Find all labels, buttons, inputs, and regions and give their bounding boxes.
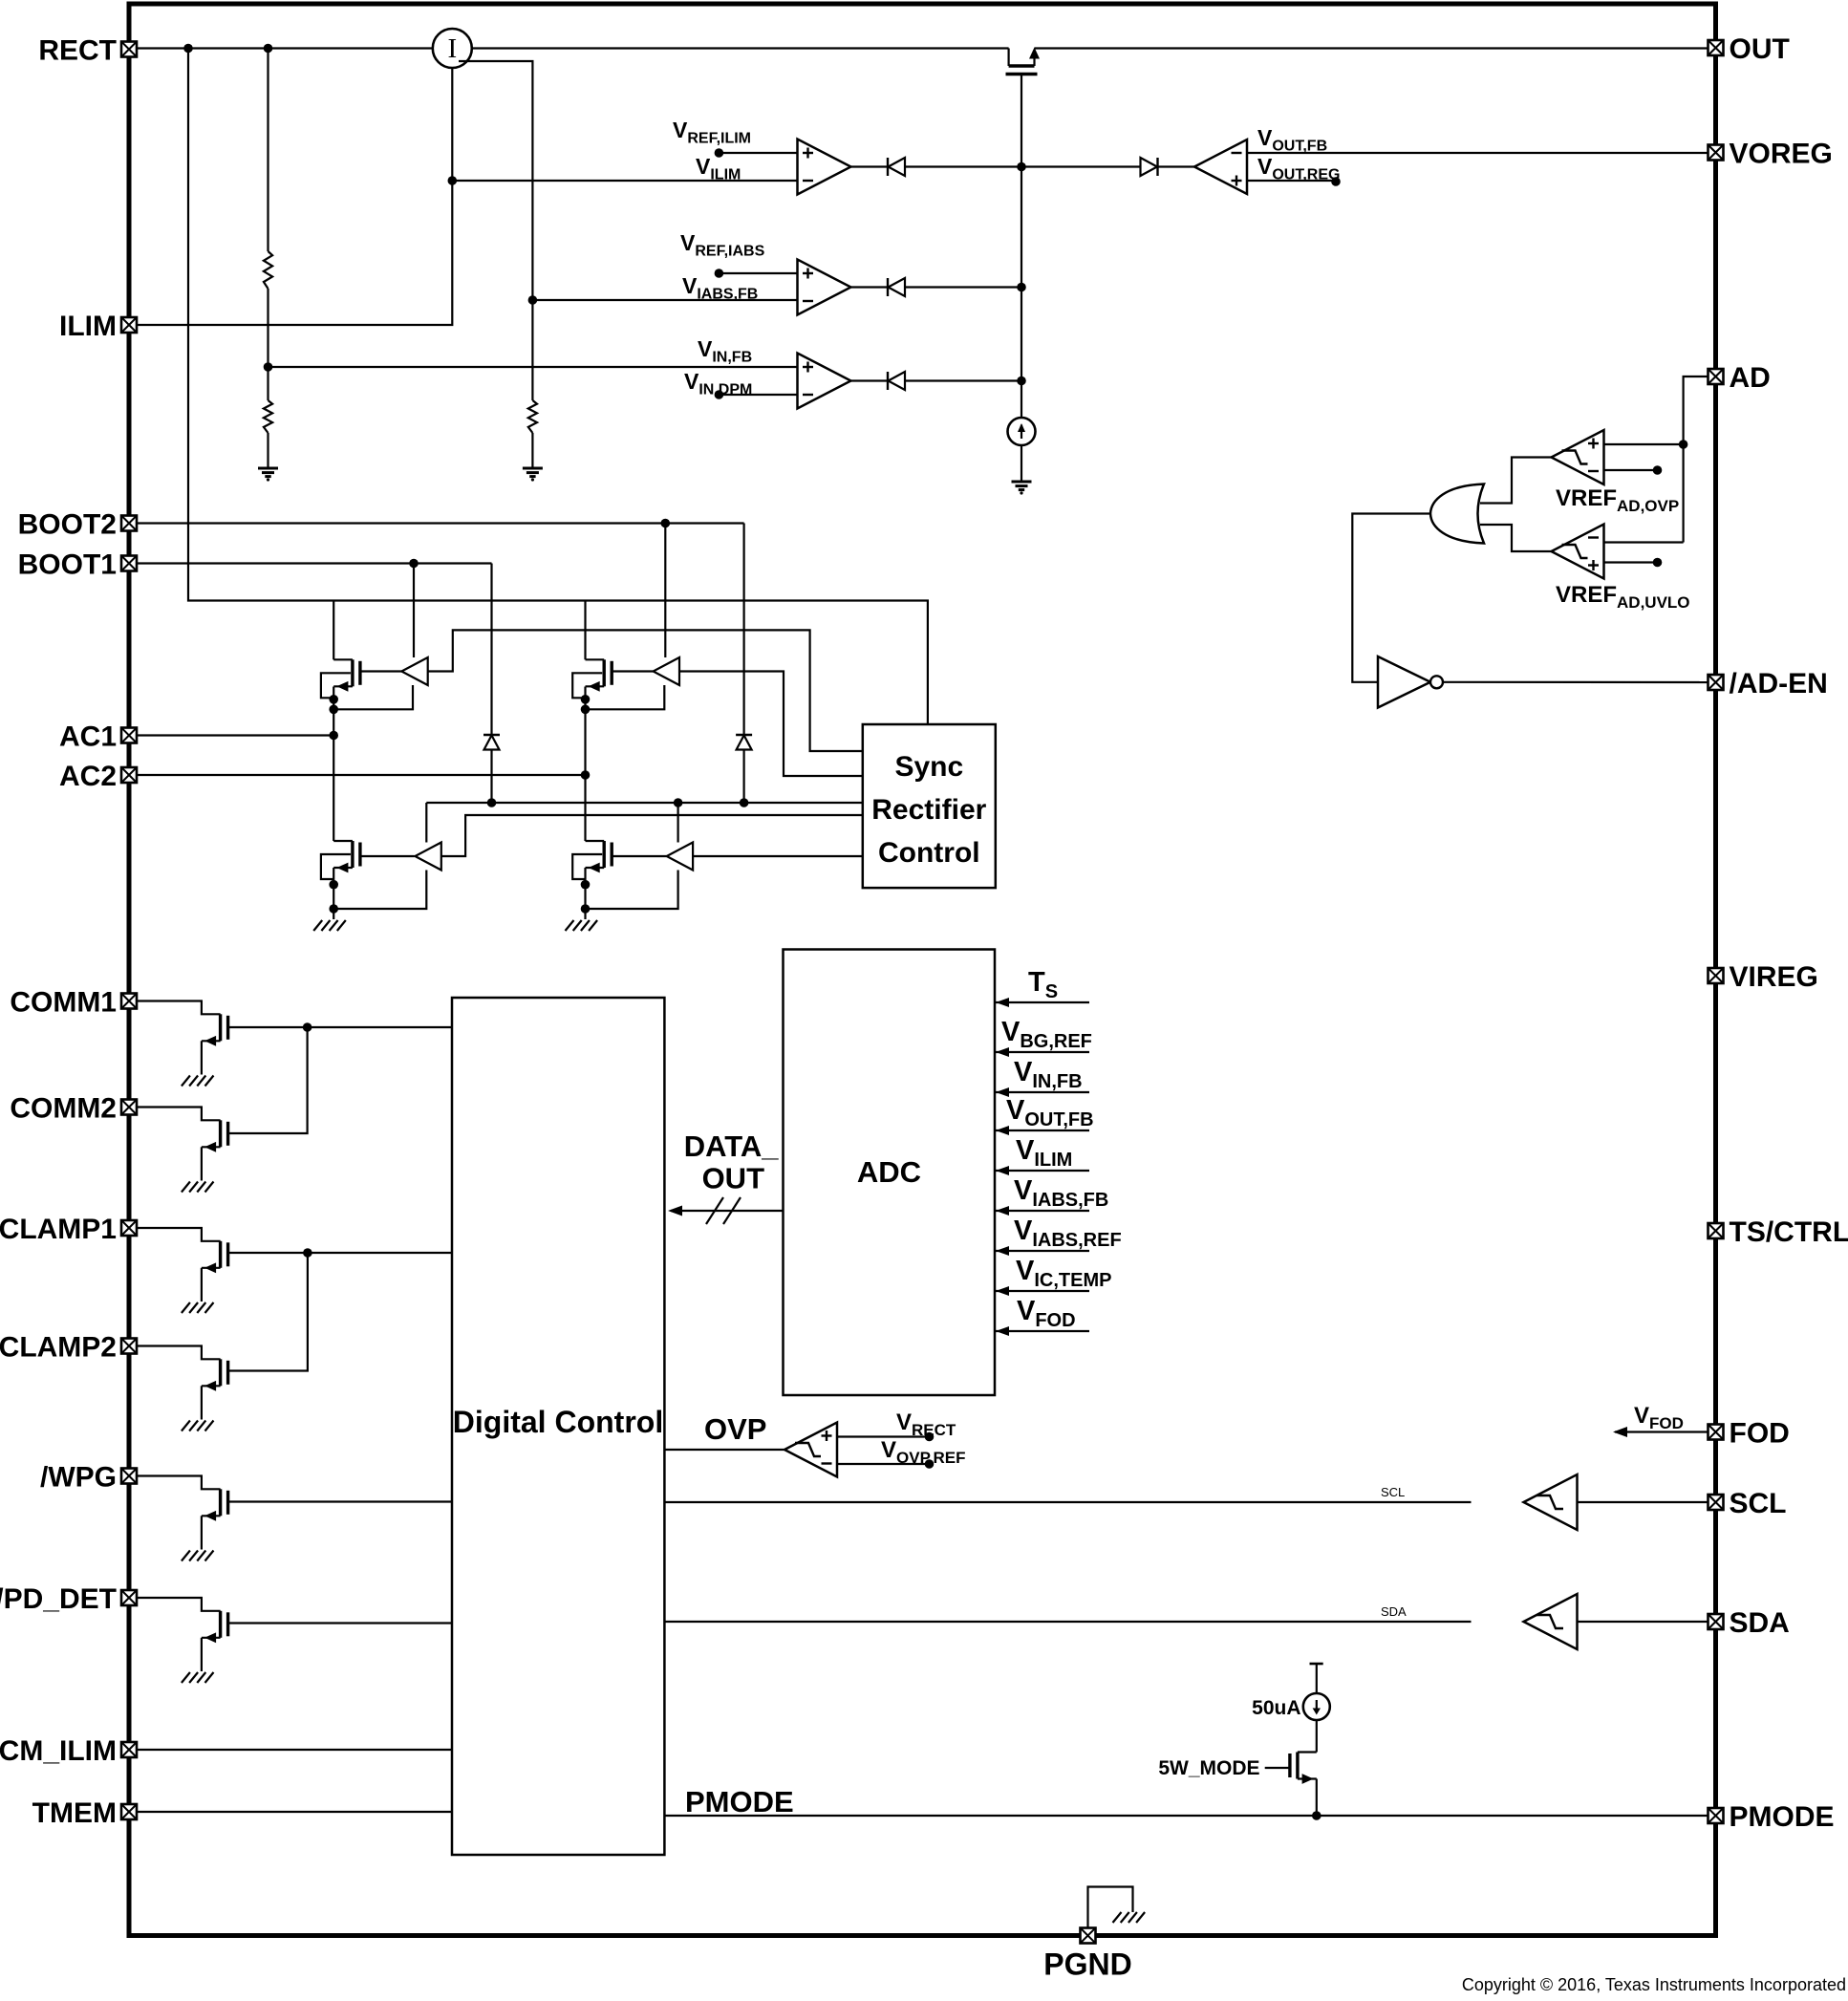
junction gate rail C [1017,377,1026,386]
transistor M6 (COMM2) [202,1120,228,1151]
buffer U11 SDA [1524,1594,1578,1649]
ground GND6 chassis [1113,1912,1146,1923]
bus slash marks [706,1197,723,1224]
pin /AD-EN [1708,668,1828,699]
body loop M4 (AC2 low-side) [572,854,602,879]
resistor R1 [264,251,272,289]
svg-text:Control: Control [878,837,980,869]
pin COMM1 [10,987,137,1019]
wire M2 source node [584,687,586,842]
transistor M5 (COMM1) [202,1014,228,1045]
ground M10 (/WPG) [182,1551,214,1561]
wire R3 to ground [531,433,533,468]
comparator U1 ILIM [798,140,851,195]
wire M11 (/PD_DET) source to ground [201,1638,203,1671]
ADC input VIABS,FB [995,1210,1089,1212]
diode D3 [851,379,889,381]
wire inverter to AD-EN pin [1443,681,1716,683]
svg-text:Copyright © 2016, Texas Instru: Copyright © 2016, Texas Instruments Inco… [1462,1975,1846,1994]
ADC input VFOD [995,1330,1089,1332]
wire M7 (CLAMP1) source to ground [201,1268,203,1302]
inverter U8 [1378,656,1430,708]
resistor R2 [264,400,272,433]
net stub VIN,DPM [719,394,797,396]
net stub VREF,AD,UVLO [1604,561,1658,563]
pin COMM2 [10,1093,137,1125]
junction gate rail A [1017,162,1026,172]
pin CLAMP1 [0,1214,137,1245]
ADC input VIC,TEMP [995,1290,1089,1292]
transistor M2 (AC2 high-side) [586,659,612,691]
net stub VRECT [837,1435,930,1437]
wire I-sense to ILIM pin [136,68,452,325]
gate driver T1 [401,657,427,685]
wire M1 source node [333,687,334,842]
junction M3 driver return [329,904,338,914]
wire R1 to R2 [267,289,269,400]
wire M7 (CLAMP1) drain [137,1228,221,1241]
ADC input VOUT,FB [995,1130,1089,1131]
svg-text:AC2: AC2 [59,761,117,792]
svg-text:/AD-EN: /AD-EN [1730,668,1828,699]
junction M4 body [581,880,591,890]
junction PMODE FET [1312,1811,1322,1820]
pin TS/CTRL [1708,1216,1848,1248]
wire D1 to gate rail [905,165,1021,167]
junction BOOT1 driver tap [409,559,419,569]
junction COMM gate tie [303,1022,312,1032]
junction VIN,FB tap [264,362,273,372]
wire T3 supply from rail [425,803,427,843]
pin AC2 [59,761,137,792]
hysteresis comparator U6 AD,UVLO [1552,525,1604,579]
wire pass FET to OUT pin [1035,47,1716,49]
wire M2 drain [584,601,586,660]
svg-text:Digital Control: Digital Control [453,1405,663,1439]
svg-text:5W_MODE: 5W_MODE [1158,1757,1259,1779]
ground M8 (CLAMP2) [182,1421,214,1431]
wire OVP output to Digital Control [664,1449,784,1451]
wire RECT rail down to gate-drive rail [188,49,928,725]
wire I-sense to IABS divider [459,61,532,400]
junction rail lower-right driver [674,798,683,807]
svg-text:CLAMP2: CLAMP2 [0,1332,117,1364]
net stub VREF,AD,OVP [1604,469,1658,471]
wire BOOT1 to diode D5 [490,564,492,736]
diode D2 [851,286,889,288]
current sense element I [433,29,472,68]
wire AD to U5 plus [1604,443,1684,445]
junction M3 body [329,880,338,890]
error amplifier U4 VOREG [1194,140,1247,194]
gate rail of pass FET [1021,75,1022,419]
wire PGND to ground [1088,1887,1133,1928]
junction gate rail B [1017,283,1026,292]
diode D6 [736,734,752,736]
svg-text:OVP: OVP [704,1412,766,1446]
ground GND4 [313,920,346,931]
wire SDA from Digital Control [664,1621,1471,1623]
net stub VREF,ILIM [719,152,797,154]
svg-text:SCL: SCL [1730,1488,1787,1519]
wire SCL from Digital Control [664,1501,1471,1503]
wire TMEM to Digital Control [137,1811,452,1813]
wire CLAMP1 gate to Digital Control [228,1252,452,1254]
wire T3 gate lead [360,855,415,857]
svg-text:/WPG: /WPG [40,1462,117,1494]
svg-text:BOOT1: BOOT1 [18,549,117,581]
driver supply rail [426,802,863,804]
ADC input VIN,FB [995,1091,1089,1093]
ground GND3 [1012,482,1032,495]
svg-text:CLAMP1: CLAMP1 [0,1214,117,1245]
ADC input VBG,REF [995,1051,1089,1053]
pin SDA [1708,1607,1790,1639]
ground M11 (/PD_DET) [182,1672,214,1683]
wire D2 to gate rail [905,286,1021,288]
wire 5W_MODE gate [1265,1767,1290,1769]
resistor R3 [528,400,537,433]
wire D3 to gate rail [905,379,1021,381]
ground GND5 [566,920,598,931]
wire T1 supply from BOOT1 [413,564,415,658]
wire FOD [1615,1431,1716,1432]
wire CM_ILIM to Digital Control [137,1749,452,1751]
wire M6 (COMM2) source to ground [201,1147,203,1180]
bus DATA_OUT [671,1210,784,1212]
svg-text:Rectifier: Rectifier [871,794,986,826]
block ADC [784,950,996,1396]
wire U5 minus link [1604,541,1684,543]
svg-text:PMODE: PMODE [1730,1801,1835,1833]
buffer U10 SCL [1524,1474,1578,1530]
wire T4 input from Sync Rectifier Control [693,855,863,857]
wire gate rail to diode D4 [1021,165,1141,167]
wire M4 drain step [586,840,605,842]
current source I1 [1008,418,1036,445]
svg-text:/PD_DET: /PD_DET [0,1583,117,1615]
wire T2 gate lead [612,670,653,672]
wire T1 gate lead [360,670,401,672]
wire M8 (CLAMP2) drain [137,1346,221,1360]
diode D5 [483,734,500,736]
svg-text:SDA: SDA [1730,1607,1790,1639]
hysteresis comparator U5 AD,OVP [1552,430,1604,484]
pin FOD [1708,1418,1790,1450]
pass transistor Q1 on OUT rail [1006,48,1041,75]
wire M10 (/WPG) drain [137,1476,221,1490]
ground M7 (CLAMP1) [182,1302,214,1313]
junction VILIM tap [448,176,458,185]
wire M8 (CLAMP2) source to ground [201,1386,203,1419]
wire U6 output to OR gate [1480,525,1552,551]
wire T2 return [586,685,665,709]
transistor M10 (/WPG) [202,1489,228,1520]
junction RECT-B [264,44,273,54]
svg-text:SDA: SDA [1381,1604,1407,1619]
supply bar 50uA [1310,1663,1323,1666]
wire COMM1 gate to Digital Control [228,1026,452,1028]
svg-text:VOREG: VOREG [1730,139,1833,170]
junction CLAMP gate tie [303,1248,312,1258]
svg-text:TMEM: TMEM [32,1797,117,1829]
svg-text:ADC: ADC [857,1155,921,1189]
svg-text:PGND: PGND [1043,1947,1131,1982]
junction M1 driver return [329,705,338,715]
junction M1 body [329,695,338,704]
svg-text:SCL: SCL [1381,1485,1405,1499]
ground GND1 [258,468,278,482]
svg-text:50uA: 50uA [1252,1697,1300,1719]
pin CM_ILIM [0,1735,137,1767]
wire M5 (COMM1) source to ground [201,1041,203,1074]
wire BOOT2 to diode D6 [742,524,744,736]
block Sync Rectifier Control [863,724,996,888]
pin PMODE [1708,1801,1835,1833]
junction M2 body [581,695,591,704]
transistor M1 (AC1 high-side) [333,659,360,691]
wire SDA buffer to pin [1578,1621,1716,1623]
body loop M3 (AC1 low-side) [321,854,351,879]
transistor M3 (AC1 low-side) [333,841,360,872]
ADC input VILIM [995,1170,1089,1172]
diode D4 [1141,158,1158,176]
svg-text:I: I [447,33,457,64]
wire VIN,FB to comparator U3 [269,366,798,368]
wire T4 return [586,871,678,910]
pin TMEM [32,1797,137,1829]
comparator U2 IABS [798,260,851,315]
svg-text:CM_ILIM: CM_ILIM [0,1735,117,1767]
svg-text:FOD: FOD [1730,1418,1790,1450]
ADC input TS [995,1001,1089,1003]
ground M6 (COMM2) [182,1182,214,1193]
svg-text:VIREG: VIREG [1730,961,1818,993]
gate driver T3 [415,843,441,871]
hysteresis comparator U9 OVP [784,1423,837,1477]
wire BOOT2 [136,522,744,524]
wire VILIM to comparator U1 [452,180,797,182]
comparator U3 DPM [798,354,851,409]
pin AD [1708,362,1771,394]
pin BOOT1 [18,549,137,581]
svg-text:OUT: OUT [1730,33,1790,65]
block Digital Control [452,998,664,1855]
wire RECT divider rail VIN [267,49,269,252]
svg-text:OUT: OUT [702,1162,765,1195]
wire M3 source to ground [333,868,334,919]
ground GND2 [523,468,543,482]
svg-text:BOOT2: BOOT2 [18,509,117,541]
pin BOOT2 [18,509,137,541]
wire RECT to current sense [136,47,433,49]
wire M11 (/PD_DET) drain [137,1598,221,1611]
transistor M9 5W_MODE [1290,1753,1317,1817]
svg-text:DATA_: DATA_ [684,1130,779,1163]
gate driver T2 [654,657,679,685]
body loop M2 (AC2 high-side) [572,673,602,698]
wire T3 input from Sync Rectifier Control [441,815,863,856]
wire COMM2 gate tie [228,1027,308,1133]
wire PMODE [664,1815,1715,1817]
pin ILIM [59,311,137,342]
wire R2 to ground [267,433,269,468]
junction M2 driver return [581,705,591,715]
wire BOOT1 [136,562,492,564]
wire D5 to driver supply rail [490,750,492,804]
junction RECT-A [183,44,193,54]
svg-text:COMM2: COMM2 [10,1093,117,1125]
wire VOUT,FB to VOREG pin [1247,152,1716,154]
junction AD net [1679,440,1688,449]
svg-text:Sync: Sync [894,751,963,783]
wire SCL buffer to pin [1578,1501,1716,1503]
junction AC1 node [329,731,338,741]
wire U5 output to OR gate [1480,458,1552,504]
pin /WPG [40,1462,137,1494]
junction VIABS,FB tap [528,295,538,305]
svg-text:COMM1: COMM1 [10,987,117,1019]
pin PGND [1043,1928,1131,1982]
wire I1 to ground [1021,445,1022,482]
svg-text:TS/CTRL: TS/CTRL [1730,1216,1848,1248]
wire T1 input from Sync Rectifier Control [428,630,863,751]
junction M4 driver return [581,904,591,914]
pin VIREG [1708,961,1818,993]
wire D4 to error amp U4 [1158,165,1195,167]
pin RECT [38,35,137,67]
ADC input VIABS,REF [995,1250,1089,1252]
wire AD pin to comparators [1684,377,1716,543]
wire T4 supply from rail [677,803,678,843]
wire current sense to pass FET [472,47,1009,49]
wire T2 supply from BOOT2 [664,524,666,658]
pin /PD_DET [0,1583,137,1615]
wire AC2 [136,774,586,776]
wire T3 return [333,871,426,910]
junction BOOT2 driver tap [661,519,671,528]
pin AC1 [59,721,137,753]
wire /WPG gate to Digital Control [228,1500,452,1502]
net stub VOVP,REF [837,1463,930,1465]
pin OUT [1708,33,1790,65]
pin SCL [1708,1488,1787,1519]
junction rail D5 [487,798,497,807]
OR gate U7 [1430,484,1484,544]
wire AC1 [136,734,333,736]
body loop M1 (AC1 high-side) [321,673,351,698]
junction AC2 node [581,770,591,780]
wire OR gate to inverter [1352,514,1430,682]
svg-text:RECT: RECT [38,35,117,67]
junction rail D6 [740,798,749,807]
wire M5 (COMM1) drain [137,1001,221,1015]
svg-text:AC1: AC1 [59,721,117,753]
ground M5 (COMM1) [182,1076,214,1087]
gate driver T4 [667,843,693,871]
svg-text:PMODE: PMODE [685,1785,794,1818]
wire M3 drain step [333,840,353,842]
pin CLAMP2 [0,1332,137,1364]
wire M6 (COMM2) drain [137,1108,221,1121]
transistor M11 (/PD_DET) [202,1611,228,1643]
wire CLAMP2 gate tie [228,1253,308,1371]
net stub VOUT,REG [1247,180,1336,182]
current source I2 50uA [1303,1693,1330,1720]
diode D1 [851,165,889,167]
transistor M8 (CLAMP2) [202,1359,228,1390]
wire T4 gate lead [612,855,667,857]
svg-text:AD: AD [1730,362,1771,394]
transistor M4 (AC2 low-side) [586,841,612,872]
wire I2 to 5W FET [1316,1720,1318,1753]
wire M4 source to ground [584,868,586,919]
wire /PD_DET gate to Digital Control [228,1622,452,1624]
transistor M7 (CLAMP1) [202,1241,228,1273]
wire D6 to driver supply rail [742,750,744,804]
wire VIABS,FB to comparator U2 [532,299,797,301]
wire M1 drain [333,601,334,660]
wire T2 input from Sync Rectifier Control [679,672,863,777]
wire T1 return [333,685,413,709]
pin VOREG [1708,139,1833,170]
net stub VREF,IABS [719,272,797,274]
svg-text:ILIM: ILIM [59,311,117,342]
wire M10 (/WPG) source to ground [201,1516,203,1549]
